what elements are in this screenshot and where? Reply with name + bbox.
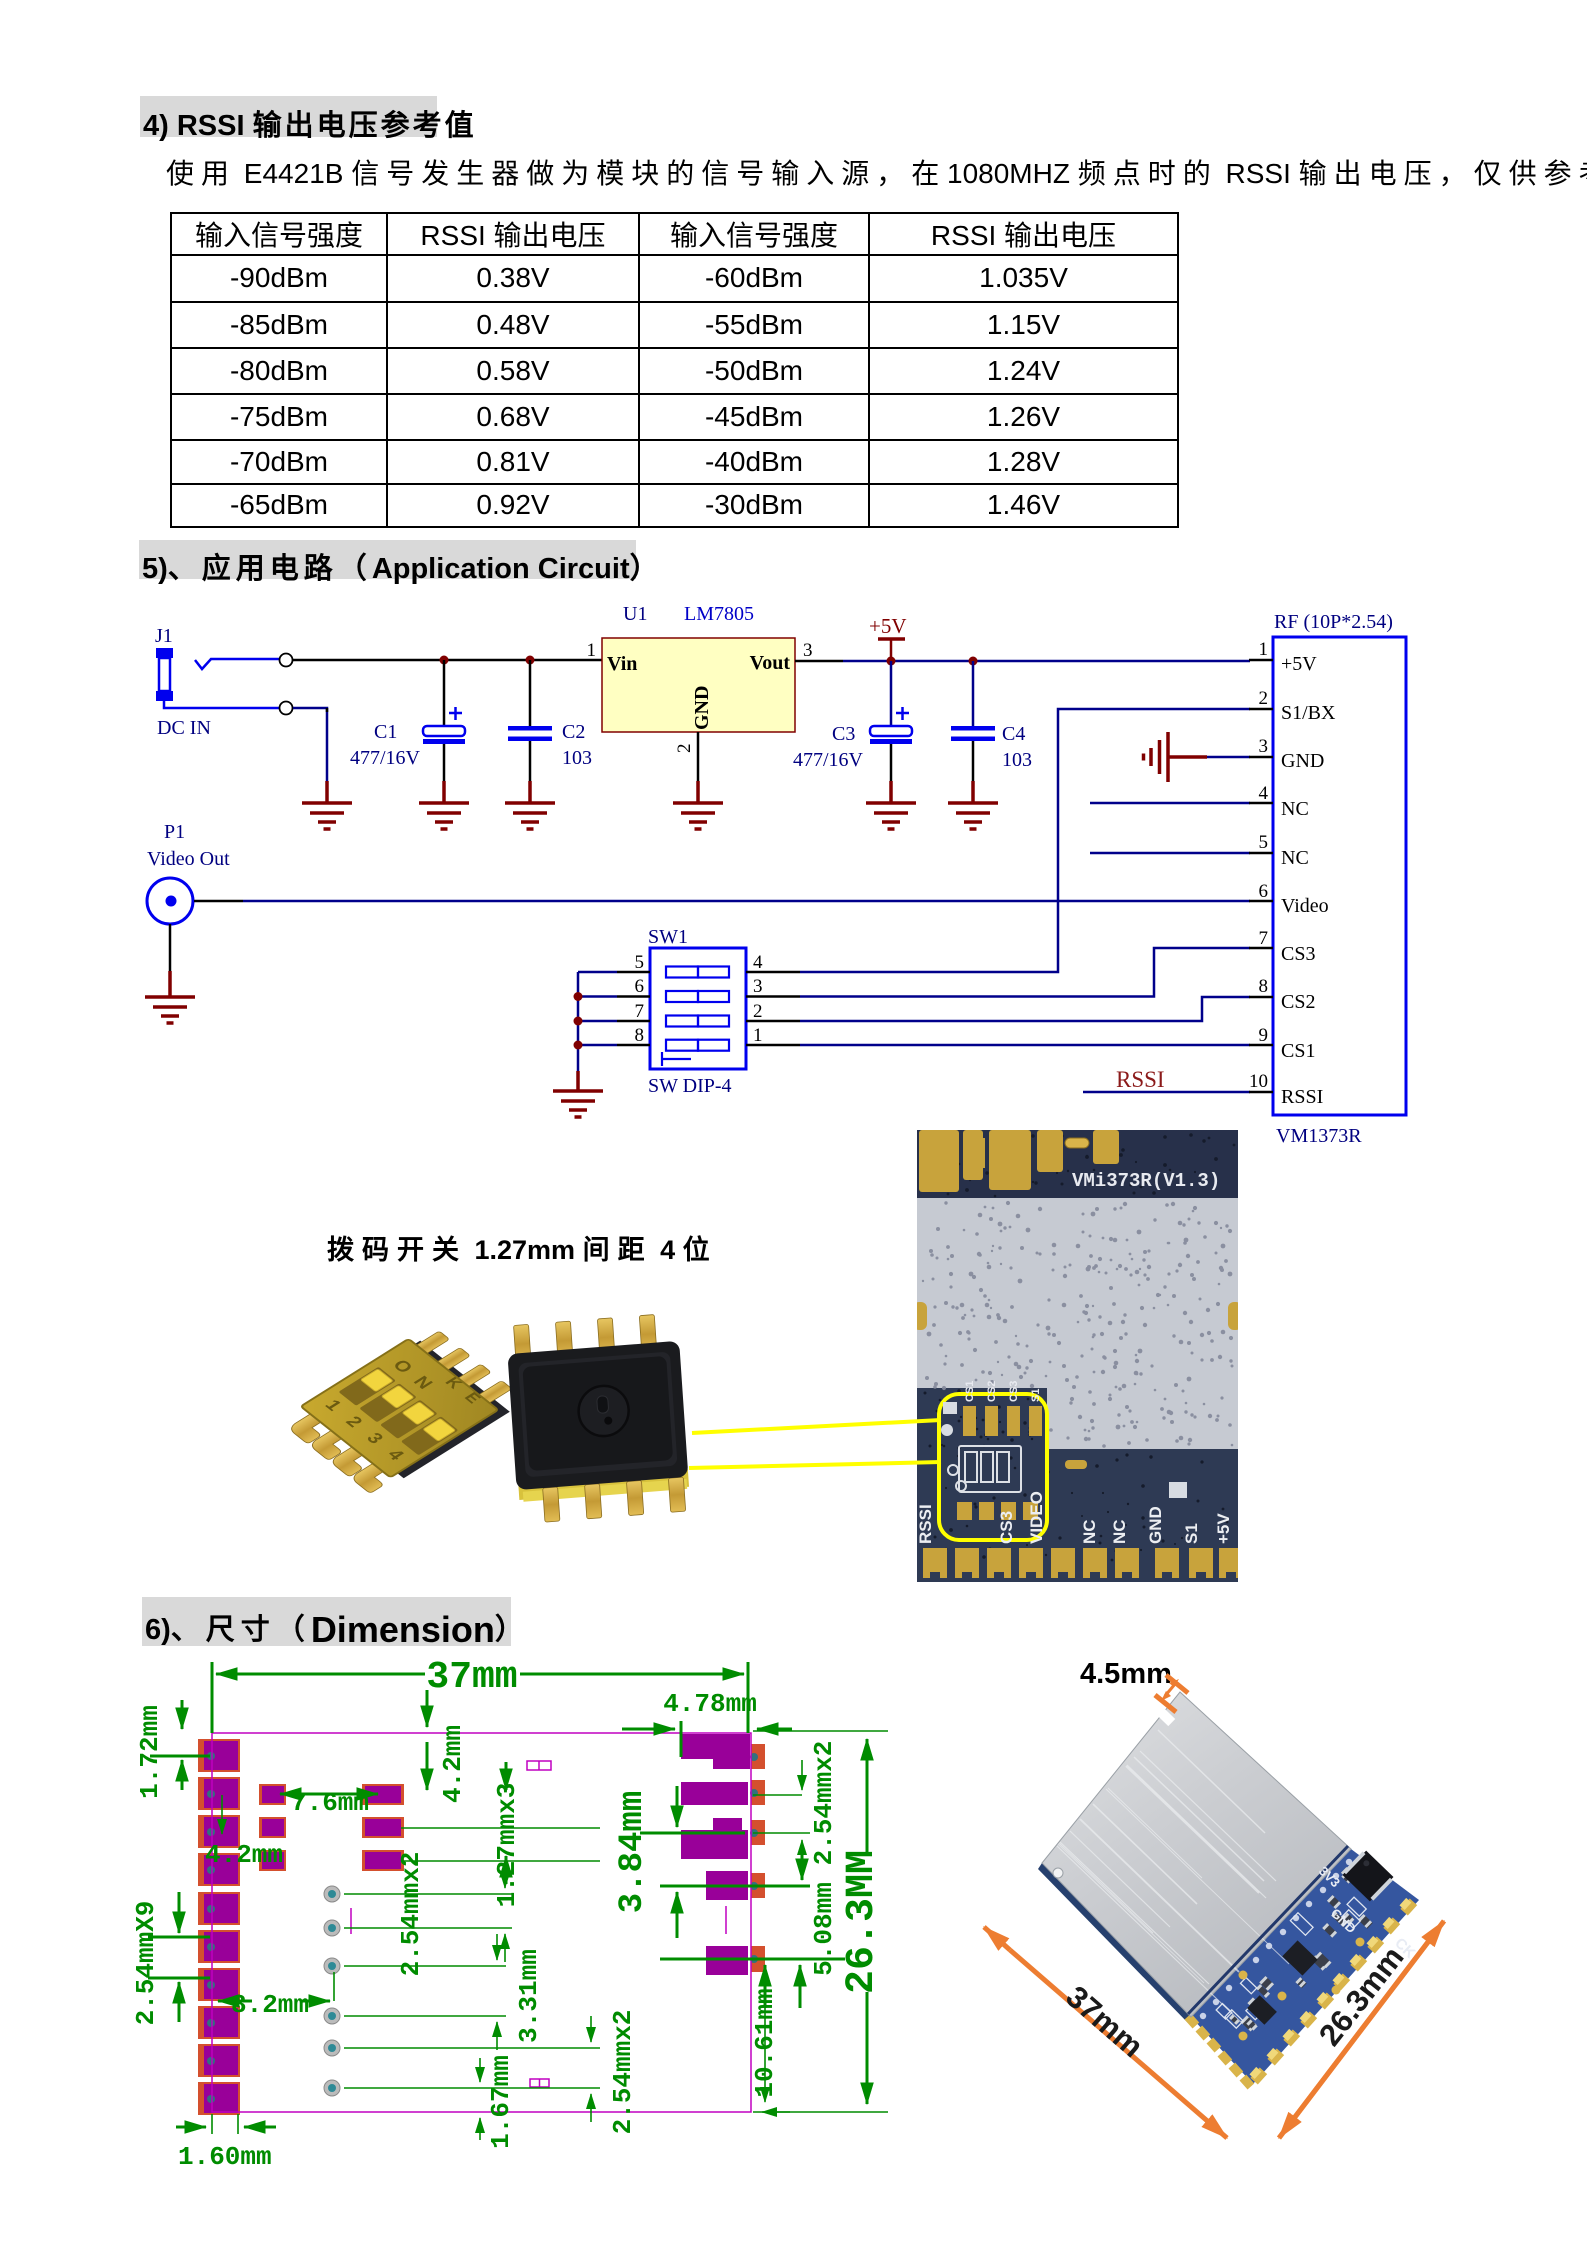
svg-text:8: 8 xyxy=(635,1025,645,1046)
svg-text:2.54mmx2: 2.54mmx2 xyxy=(608,2010,638,2135)
svg-text:SW1: SW1 xyxy=(648,926,688,948)
svg-text:1.27mmx3: 1.27mmx3 xyxy=(492,1783,522,1908)
svg-text:CS3: CS3 xyxy=(1281,943,1315,965)
application circuit schematic xyxy=(130,575,1460,1160)
left pad row x9 xyxy=(198,1739,240,2115)
ground (C2) xyxy=(505,781,555,829)
1.67mm arrows xyxy=(479,2058,481,2082)
7.6mm dimension xyxy=(280,1793,378,1796)
svg-text:10: 10 xyxy=(1249,1071,1268,1092)
37mm dimension arrow xyxy=(984,1675,1444,2138)
small pad cluster left xyxy=(259,1784,404,1871)
rotated pad labels in callout xyxy=(964,1381,1042,1402)
svg-text:3: 3 xyxy=(803,640,813,661)
svg-text:5: 5 xyxy=(1259,832,1269,853)
svg-text:NC: NC xyxy=(1281,847,1309,869)
8.2mm dimension xyxy=(218,1972,334,2001)
wire: SW1 pin4 to S1/BX xyxy=(746,972,800,1045)
wire: P1 to Video pin xyxy=(194,900,243,903)
svg-text:CS3: CS3 xyxy=(1008,1381,1020,1402)
svg-text:6: 6 xyxy=(635,976,645,997)
svg-text:4.2mm: 4.2mm xyxy=(205,1840,283,1870)
svg-text:CS2: CS2 xyxy=(1281,991,1315,1013)
ground (RF GND pin) rotated xyxy=(1144,732,1208,782)
svg-text:2: 2 xyxy=(753,1001,763,1022)
capacitor C2 103 xyxy=(508,660,592,781)
5.08mm / pad E dimension xyxy=(660,1959,845,2008)
svg-text:S1/BX: S1/BX xyxy=(1281,702,1336,724)
svg-text:NC: NC xyxy=(1110,1519,1129,1544)
svg-text:GND: GND xyxy=(1146,1506,1165,1544)
svg-text:2.54mmx2: 2.54mmx2 xyxy=(809,1741,839,1866)
svg-text:3: 3 xyxy=(1259,736,1269,757)
svg-text:3.84mm: 3.84mm xyxy=(614,1791,652,1913)
pin circle upper xyxy=(280,654,293,667)
svg-text:CS1: CS1 xyxy=(964,1381,976,1402)
ground (C1) xyxy=(419,781,469,829)
svg-text:1: 1 xyxy=(587,640,597,661)
node: junction at C1 xyxy=(440,656,449,665)
svg-text:VIDEO: VIDEO xyxy=(1027,1491,1046,1544)
10.61mm dimension xyxy=(764,1974,766,2070)
svg-text:4: 4 xyxy=(1259,783,1269,804)
svg-text:103: 103 xyxy=(562,747,592,769)
svg-text:NC: NC xyxy=(1080,1519,1099,1544)
svg-text:4: 4 xyxy=(753,952,763,973)
ground (C4) xyxy=(948,781,998,829)
svg-text:U1: U1 xyxy=(623,603,647,625)
svg-text:CS3: CS3 xyxy=(997,1511,1016,1544)
heading section 4 xyxy=(140,96,437,137)
svg-text:C3: C3 xyxy=(832,723,855,745)
wire: lower pin to ground drop xyxy=(293,708,327,781)
svg-text:2.54mmX9: 2.54mmX9 xyxy=(135,1901,161,2026)
power +5V xyxy=(869,614,907,661)
svg-text:RSSI: RSSI xyxy=(1281,1086,1323,1108)
paragraph xyxy=(166,152,1416,192)
svg-text:2: 2 xyxy=(674,744,695,754)
connector RF VM1373R (10P*2.54) xyxy=(1249,611,1406,1147)
svg-text:5: 5 xyxy=(635,952,645,973)
svg-text:+5V: +5V xyxy=(1214,1513,1233,1544)
svg-text:37mm: 37mm xyxy=(426,1656,517,1699)
board outline xyxy=(212,1733,751,2112)
right side small dims xyxy=(753,1794,802,1796)
svg-text:J1: J1 xyxy=(155,625,173,647)
pads inside callout xyxy=(957,1406,1042,1520)
wire: P1 shell to ground xyxy=(169,924,172,971)
svg-text:477/16V: 477/16V xyxy=(350,747,421,769)
node: junction at C2 xyxy=(526,656,535,665)
wire: NC pin5 stub xyxy=(1090,852,1250,855)
DIP switch product photos xyxy=(270,1290,730,1540)
switch SW1 SW DIP-4 xyxy=(635,926,764,1097)
black rotary/DIP switch photo xyxy=(506,1313,691,1524)
4.2mm vertical dimension xyxy=(426,1742,429,1790)
svg-text:LM7805: LM7805 xyxy=(684,603,754,625)
svg-text:P1: P1 xyxy=(164,821,185,843)
37mm dimension xyxy=(212,1662,748,1733)
text above dip switch photos xyxy=(327,1228,718,1267)
svg-text:S1: S1 xyxy=(1030,1389,1042,1402)
via dimension lines xyxy=(344,1893,512,1895)
svg-text:4.2mm: 4.2mm xyxy=(438,1725,468,1803)
wire: J1 sleeve to lower pin circle xyxy=(164,701,280,708)
1.60mm dimension xyxy=(176,2114,276,2134)
svg-text:10.61mm: 10.61mm xyxy=(750,1988,780,2097)
svg-text:Vout: Vout xyxy=(750,652,791,674)
svg-text:1: 1 xyxy=(1259,639,1269,660)
capacitor C1 477/16V electrolytic xyxy=(350,660,465,781)
wire: SW1 left pins to ground bus xyxy=(617,972,650,1045)
svg-text:GND: GND xyxy=(691,686,713,730)
4.78mm dimension xyxy=(622,1721,792,1757)
svg-text:1.72mm: 1.72mm xyxy=(135,1705,165,1799)
svg-text:+5V: +5V xyxy=(1281,653,1317,675)
PCB module photo (top view) xyxy=(917,1130,1238,1582)
svg-text:C4: C4 xyxy=(1002,723,1025,745)
wire: input rail to U1 Vin xyxy=(293,659,602,662)
side slots xyxy=(913,1302,927,1330)
gold pads top edge xyxy=(919,1130,1119,1192)
dimension drawing (PCB footprint) xyxy=(135,1652,1005,2192)
wire: SW1 pin1 to CS1 xyxy=(800,1044,1250,1047)
small purple silkscreen marks xyxy=(351,1761,726,2087)
svg-text:2: 2 xyxy=(1259,688,1269,709)
svg-text:1.67mm: 1.67mm xyxy=(486,2055,516,2149)
pin circle lower xyxy=(280,702,293,715)
svg-text:Vin: Vin xyxy=(607,653,637,675)
svg-text:1.60mm: 1.60mm xyxy=(178,2142,272,2172)
angled module photo with dimensions xyxy=(960,1650,1520,2160)
yellow callout lines from switch photo to PCB xyxy=(660,1390,960,1500)
vias xyxy=(324,1886,340,2096)
wire: U1 pin3 stub xyxy=(795,660,843,663)
svg-text:VM1373R: VM1373R xyxy=(1276,1125,1362,1147)
svg-text:DC IN: DC IN xyxy=(157,717,211,739)
svg-text:S1: S1 xyxy=(1182,1523,1201,1544)
svg-text:C1: C1 xyxy=(374,721,397,743)
right pad column xyxy=(681,1734,765,1975)
connector P1 Video Out xyxy=(147,821,230,924)
wire: J1 tip contact to pin circle xyxy=(195,659,280,669)
svg-text:CS2: CS2 xyxy=(986,1381,998,1402)
wire: SW1 pin3 to CS3 xyxy=(800,948,1250,997)
svg-text:477/16V: 477/16V xyxy=(793,749,864,771)
svg-text:Video Out: Video Out xyxy=(147,848,230,870)
svg-text:VMi373R(V1.3): VMi373R(V1.3) xyxy=(1072,1170,1220,1192)
svg-text:37mm: 37mm xyxy=(1059,1979,1150,2064)
svg-text:GND: GND xyxy=(1281,750,1324,772)
svg-text:9: 9 xyxy=(1259,1025,1269,1046)
1.27mmx3 arrows xyxy=(505,1762,508,1884)
wire: U1 pin2 to ground xyxy=(697,732,700,781)
node: junction at C3 xyxy=(887,657,896,666)
svg-text:4.78mm: 4.78mm xyxy=(663,1689,757,1719)
svg-text:6: 6 xyxy=(1259,881,1269,902)
svg-text:7.6mm: 7.6mm xyxy=(291,1788,369,1818)
node: ground bus junctions xyxy=(574,992,583,1001)
connector J1 xyxy=(155,625,211,739)
green dimension texts xyxy=(131,1656,885,2172)
ground (C3) xyxy=(866,781,916,829)
svg-text:C2: C2 xyxy=(562,721,585,743)
svg-text:3.31mm: 3.31mm xyxy=(514,1949,544,2043)
wire: +5V rail to RF pin1 xyxy=(843,660,1250,663)
green dimension annotations xyxy=(148,1662,888,2140)
svg-text:SW DIP-4: SW DIP-4 xyxy=(648,1075,732,1097)
26.3MM dimension xyxy=(753,1731,888,2112)
node: junction at C4 xyxy=(969,657,978,666)
svg-text:1: 1 xyxy=(753,1025,763,1046)
svg-text:7: 7 xyxy=(1259,928,1269,949)
svg-text:3: 3 xyxy=(753,976,763,997)
4.2mm small arrow xyxy=(221,1795,223,1834)
svg-text:RSSI: RSSI xyxy=(917,1504,935,1544)
svg-text:7: 7 xyxy=(635,1001,645,1022)
1.72mm arrows xyxy=(150,1700,210,1790)
svg-text:103: 103 xyxy=(1002,749,1032,771)
ground (U1) xyxy=(673,781,723,829)
svg-text:8.2mm: 8.2mm xyxy=(231,1990,309,2020)
yellow callout box xyxy=(939,1394,1047,1540)
wire: NC pin4 stub xyxy=(1090,802,1250,805)
4.5mm label for module photo xyxy=(1080,1658,1172,1691)
svg-text:5.08mm: 5.08mm xyxy=(809,1882,839,1976)
ground (P1) xyxy=(145,971,195,1023)
capacitor C4 103 xyxy=(951,661,1032,781)
wire: SW1 pin2 to CS2 xyxy=(800,997,1250,1021)
heading section 5 xyxy=(139,540,636,579)
ground (DC IN) xyxy=(302,781,352,829)
2.54mmX9 arrows xyxy=(148,1892,210,2022)
svg-text:NC: NC xyxy=(1281,798,1309,820)
svg-text:CS1: CS1 xyxy=(1281,1040,1315,1062)
svg-text:RSSI: RSSI xyxy=(1116,1067,1165,1092)
3.84mm dimension xyxy=(640,1786,810,1938)
svg-text:26.3MM: 26.3MM xyxy=(840,1850,885,1994)
regulator U1 LM7805 xyxy=(587,603,813,753)
RSSI voltage table xyxy=(170,212,1179,528)
svg-text:RF (10P*2.54): RF (10P*2.54) xyxy=(1274,611,1393,633)
ground (SW1) xyxy=(553,1071,603,1117)
yellow DIP switch photo xyxy=(278,1325,527,1497)
svg-text:8: 8 xyxy=(1259,976,1269,997)
svg-text:Video: Video xyxy=(1281,895,1329,917)
heading section 6 xyxy=(142,1597,511,1646)
svg-text:+5V: +5V xyxy=(869,614,907,638)
svg-text:2.54mmx2: 2.54mmx2 xyxy=(396,1852,426,1977)
capacitor C3 477/16V electrolytic xyxy=(793,661,912,781)
silkscreen switch drawing xyxy=(948,1446,1021,1492)
